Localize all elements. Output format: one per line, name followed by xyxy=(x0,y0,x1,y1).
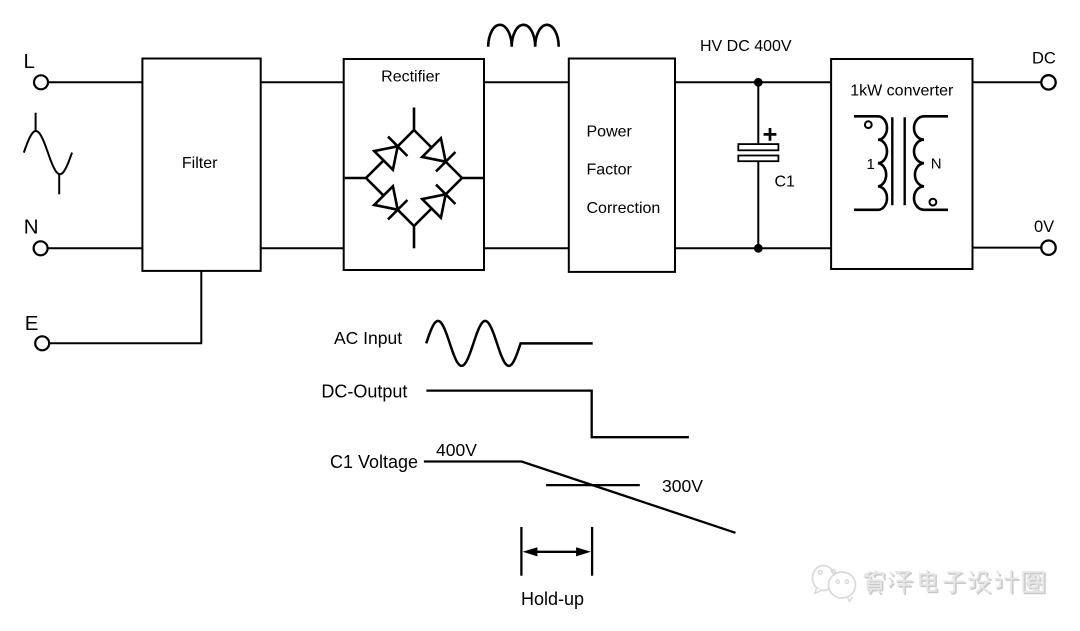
diode D2 xyxy=(422,138,455,171)
wire Filter to Rectifier (top) xyxy=(261,81,344,83)
svg-text:300V: 300V xyxy=(662,476,703,496)
inductor boost choke xyxy=(488,25,559,47)
svg-text:Power: Power xyxy=(587,124,633,141)
wire converter to 0V xyxy=(973,247,1042,249)
transformer primary winding xyxy=(854,116,887,210)
bridge left lead xyxy=(345,177,366,180)
bridge rectifier diamond xyxy=(366,130,462,226)
hold-up double arrow xyxy=(523,547,591,556)
node bottom junction xyxy=(754,244,763,253)
hold-up left marker xyxy=(520,527,522,576)
diode D1 xyxy=(374,137,407,170)
wire converter to DC xyxy=(973,81,1042,83)
waveform AC input sine xyxy=(426,321,593,366)
300V level line xyxy=(546,484,640,486)
svg-text:C1: C1 xyxy=(775,174,796,191)
svg-text:HV DC 400V: HV DC 400V xyxy=(700,38,792,55)
wire PFC to converter (bottom) xyxy=(675,247,831,249)
svg-text:0V: 0V xyxy=(1034,218,1054,236)
terminal DC xyxy=(1032,50,1056,90)
svg-text:Rectifier: Rectifier xyxy=(381,69,440,86)
wire N to Filter xyxy=(48,247,143,249)
transformer secondary winding xyxy=(914,116,948,210)
transformer secondary dot xyxy=(930,199,937,206)
diode D4 xyxy=(422,185,455,218)
svg-text:AC Input: AC Input xyxy=(334,328,402,348)
svg-text:DC: DC xyxy=(1032,50,1056,68)
block Filter xyxy=(142,59,260,271)
svg-text:1: 1 xyxy=(867,156,875,173)
svg-text:L: L xyxy=(24,50,35,73)
wire Rectifier to PFC (top) xyxy=(484,81,569,83)
waveform C1 voltage decay xyxy=(424,462,736,533)
watermark logo chat bubbles xyxy=(813,566,856,602)
svg-text:400V: 400V xyxy=(436,440,477,460)
svg-text:Correction: Correction xyxy=(587,200,661,217)
terminal L xyxy=(24,50,49,89)
svg-text:Filter: Filter xyxy=(182,155,218,172)
block Rectifier xyxy=(344,59,484,270)
node top junction xyxy=(754,78,763,87)
block 1kW converter xyxy=(831,59,972,269)
block Power Factor Correction xyxy=(569,59,675,272)
svg-text:N: N xyxy=(931,156,942,173)
transformer primary dot xyxy=(865,121,872,128)
bridge bottom lead xyxy=(413,226,416,248)
wire PFC to converter (top) xyxy=(675,81,831,83)
transformer core xyxy=(892,117,904,205)
terminal N xyxy=(24,215,48,255)
svg-text:Hold-up: Hold-up xyxy=(521,589,584,609)
hold-up right marker xyxy=(591,527,593,576)
terminal 0V xyxy=(1034,218,1056,255)
svg-text:N: N xyxy=(24,215,39,238)
terminal E xyxy=(25,312,49,350)
watermark text mouser ezone xyxy=(864,571,1044,594)
svg-text:C1 Voltage: C1 Voltage xyxy=(330,452,418,472)
svg-text:E: E xyxy=(25,312,39,335)
capacitor C1 xyxy=(738,82,795,248)
diode D3 xyxy=(374,186,407,219)
AC source symbol xyxy=(24,113,72,195)
wire E to Filter bottom xyxy=(49,271,201,343)
wire Filter to Rectifier (bottom) xyxy=(261,247,344,249)
svg-text:1kW converter: 1kW converter xyxy=(850,82,954,99)
wire Rectifier to PFC (bottom) xyxy=(484,247,569,249)
waveform DC output step xyxy=(426,391,689,438)
wire L to Filter xyxy=(48,81,142,83)
svg-text:Factor: Factor xyxy=(587,162,633,179)
bridge top lead xyxy=(413,108,416,131)
svg-text:DC-Output: DC-Output xyxy=(321,381,407,401)
bridge right lead xyxy=(462,177,483,180)
